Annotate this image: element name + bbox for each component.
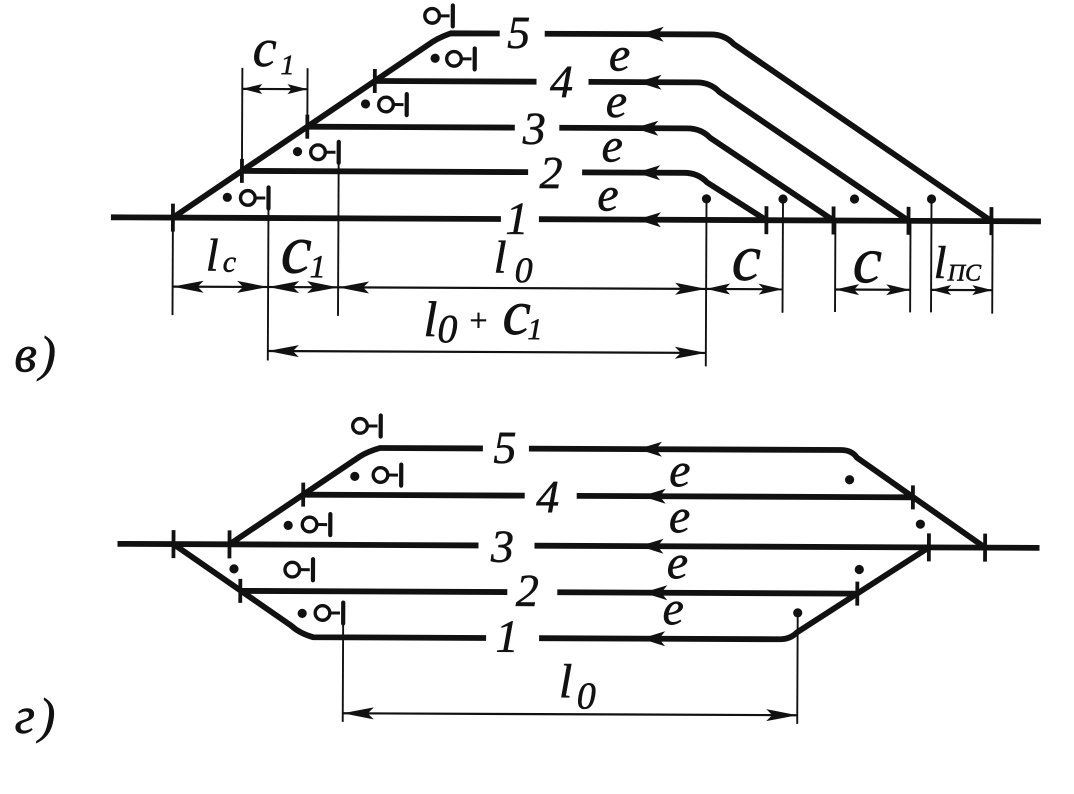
svg-text:e: e bbox=[609, 29, 631, 82]
svg-text:c: c bbox=[281, 212, 312, 289]
svg-text:l: l bbox=[423, 291, 437, 347]
svg-text:l: l bbox=[494, 232, 507, 283]
svg-text:4: 4 bbox=[550, 56, 573, 107]
svg-text:3: 3 bbox=[490, 521, 514, 572]
svg-text:г: г bbox=[15, 688, 36, 745]
svg-text:0: 0 bbox=[577, 675, 596, 717]
svg-text:c: c bbox=[853, 224, 883, 297]
svg-text:2: 2 bbox=[516, 565, 539, 616]
svg-text:): ) bbox=[36, 326, 56, 382]
svg-text:в: в bbox=[14, 326, 37, 383]
svg-text:e: e bbox=[662, 582, 684, 635]
svg-text:1: 1 bbox=[527, 313, 542, 346]
svg-text:2: 2 bbox=[540, 147, 563, 198]
svg-text:e: e bbox=[597, 168, 619, 221]
svg-text:0: 0 bbox=[437, 306, 457, 351]
svg-text:1: 1 bbox=[495, 611, 518, 662]
svg-text:l: l bbox=[934, 237, 947, 288]
svg-text:1: 1 bbox=[505, 193, 528, 244]
svg-text:1: 1 bbox=[310, 248, 326, 284]
svg-text:c: c bbox=[732, 222, 762, 295]
svg-text:5: 5 bbox=[507, 7, 530, 58]
svg-text:c: c bbox=[253, 18, 277, 78]
svg-text:ПС: ПС bbox=[947, 260, 982, 286]
svg-text:c: c bbox=[223, 246, 236, 279]
svg-text:l: l bbox=[206, 230, 219, 281]
svg-text:4: 4 bbox=[536, 471, 559, 522]
svg-text:): ) bbox=[36, 688, 56, 744]
svg-text:l: l bbox=[559, 655, 573, 708]
svg-text:e: e bbox=[601, 119, 623, 172]
svg-text:+: + bbox=[467, 302, 489, 338]
svg-text:5: 5 bbox=[493, 422, 516, 473]
svg-text:1: 1 bbox=[281, 50, 295, 81]
